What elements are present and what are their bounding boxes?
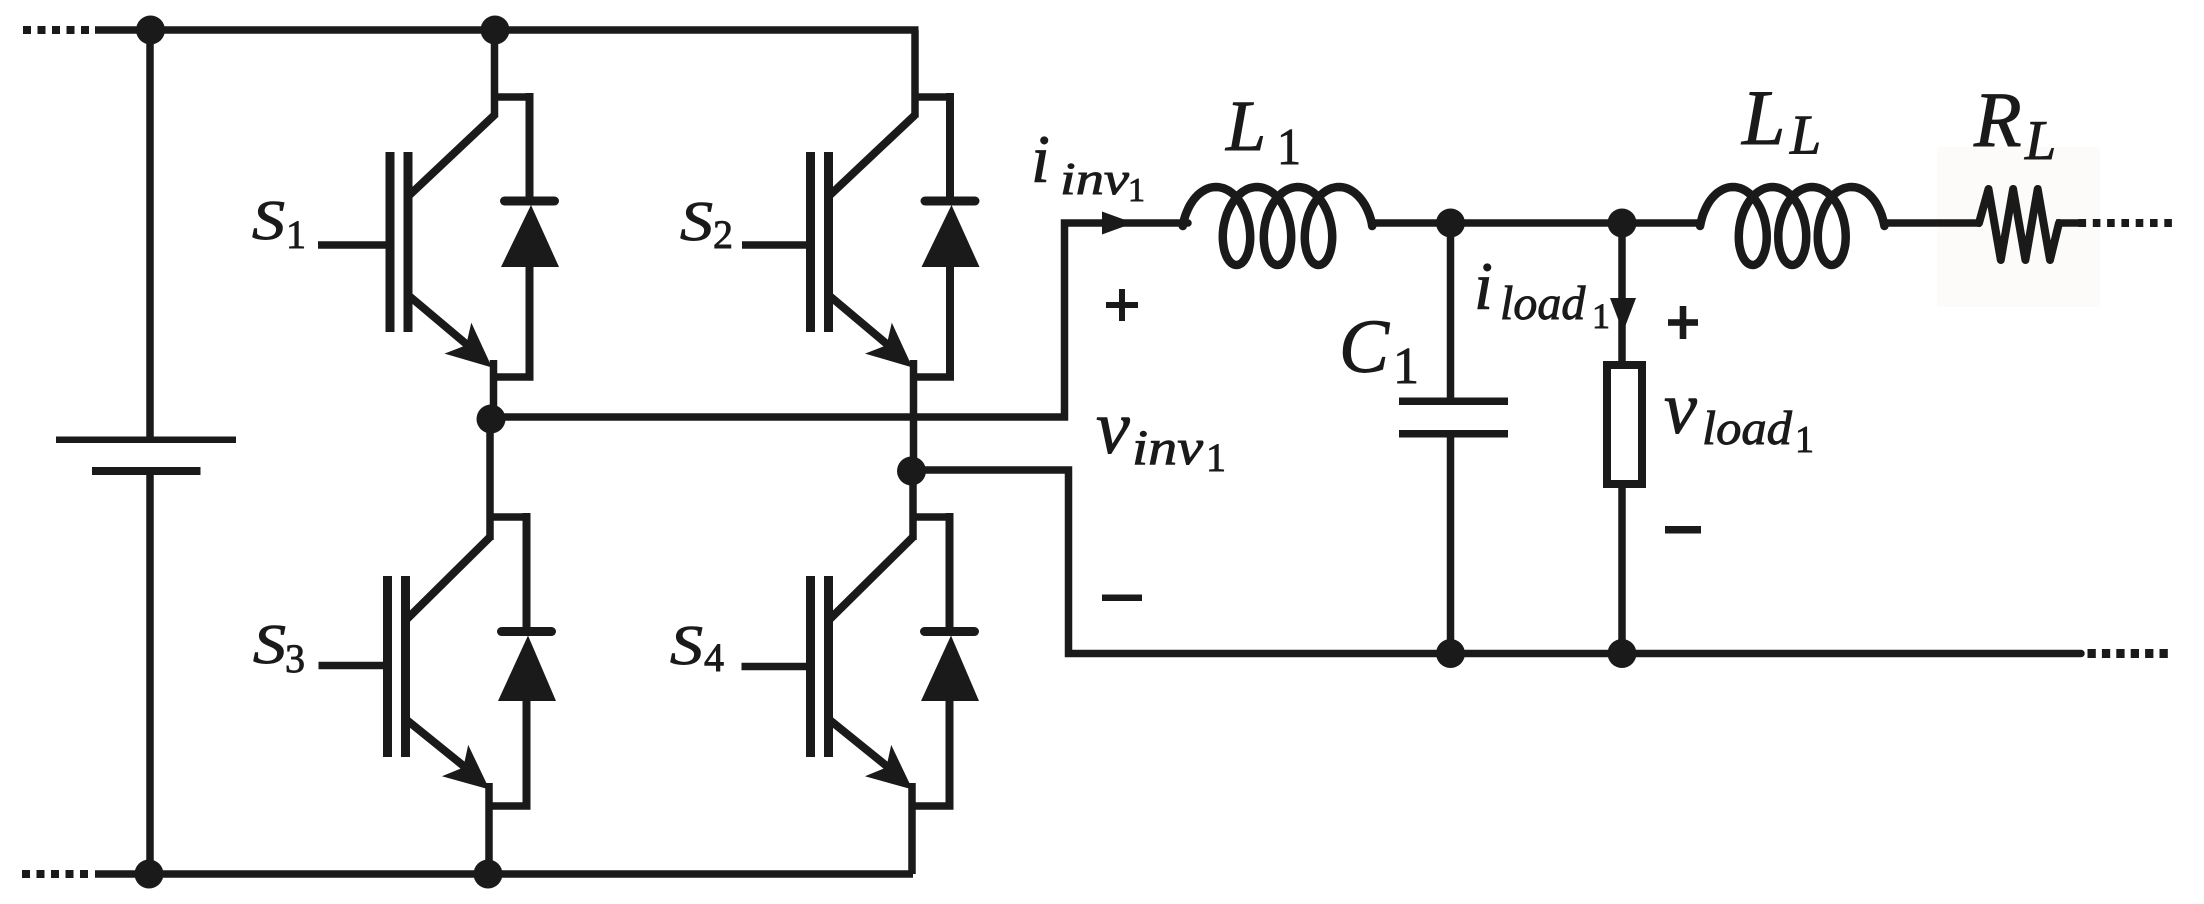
transistor S1 emitter lead [408,295,468,346]
node top-left junction [136,16,165,45]
svg-text:S: S [252,190,285,252]
dotted continuation top-left [23,26,31,34]
wire load bottom lead [1618,488,1626,654]
transistor S4 emitter arrow [865,745,913,790]
wire S1 emitter to midpoint [490,360,498,419]
transistor S1 collector lead [408,115,495,197]
current arrow i_load1 [1610,298,1636,332]
wire S3 emitter to bottom rail [485,783,493,874]
svg-text:L: L [1225,86,1266,166]
transistor S4 collector lead [829,537,914,621]
dotted continuation bottom-right [2088,649,2096,658]
diode D1 triangle [501,205,559,267]
transistor S3 gate bar [383,576,392,757]
svg-text:L: L [1741,74,1785,161]
resistor v_load1 box [1607,365,1642,484]
svg-text:S: S [670,615,703,677]
diode D3 triangle [498,636,556,702]
dotted continuation bottom-left [22,870,30,878]
current arrow i_inv1 [1102,212,1134,235]
battery V_dc negative plate [92,467,201,475]
transistor S4 gate bar [806,576,815,757]
wire battery top lead [146,30,154,438]
svg-text:4: 4 [704,635,724,680]
svg-text:R: R [1973,76,2022,163]
transistor S1 emitter arrow [445,323,493,368]
svg-text:2: 2 [713,212,733,257]
wire RL out [2056,219,2080,227]
svg-text:1: 1 [286,212,306,257]
diode D4 top lead [910,513,950,521]
diode D3 cathode bar [502,627,552,636]
resistor RL zigzag [1979,189,2059,260]
transistor S4 gate lead [742,663,811,671]
transistor S1 body bar [404,152,413,332]
svg-text:1: 1 [1393,338,1419,395]
diode D3 top lead [487,513,527,521]
svg-text:1: 1 [1206,435,1226,480]
svg-text:v: v [1096,386,1130,470]
transistor S3 emitter arrow [442,745,490,790]
plus sign v_load1 [1668,319,1698,326]
diode D2 cathode bar [925,197,975,206]
node bottom S3 junction [474,860,503,889]
node load top [1608,209,1637,238]
diode D4 bottom lead [946,701,954,810]
minus sign v_load1 [1665,526,1701,534]
diode D2 bottom lead [946,267,954,381]
node C1 top [1436,209,1465,238]
diode D1 cathode bar [505,197,555,206]
svg-text:inv: inv [1132,419,1204,475]
dotted continuation top-right [2079,219,2087,227]
wire S3 collector from midpoint [486,419,494,540]
diode D2 triangle [922,205,980,267]
svg-text:1: 1 [1795,419,1814,461]
svg-text:load: load [1702,402,1793,455]
diode D4 cathode bar [925,627,975,636]
wire inverter output upper [491,223,1188,417]
diode D4 triangle [921,636,979,702]
wire S4 emitter to bottom rail [908,783,916,874]
wire load top lead [1618,223,1626,364]
node top S1 junction [481,16,510,45]
transistor S1 gate bar [386,152,395,332]
transistor S3 body bar [401,576,410,757]
wire bottom rail [95,870,913,878]
transistor S3 gate lead [319,662,388,670]
node C1 bottom [1436,639,1465,668]
diode D2 top lead [912,93,951,101]
svg-text:1: 1 [1128,172,1145,209]
minus sign v_inv1 [1102,595,1142,602]
node load bottom [1608,639,1637,668]
transistor S1 gate lead [318,241,390,249]
battery V_dc positive plate [56,437,236,444]
plus sign v_inv1 [1106,302,1138,308]
capacitor C1 top plate [1399,398,1508,406]
svg-text:i: i [1474,248,1493,324]
svg-text:C: C [1339,305,1390,389]
node S1-S3 midpoint [477,405,506,434]
node S2-S4 midpoint [897,457,926,486]
wire S2 emitter to midpoint [910,360,918,471]
svg-text:v: v [1664,368,1697,450]
svg-text:L: L [1789,105,1821,167]
svg-text:L: L [2024,110,2056,172]
transistor S4 emitter lead [829,719,889,768]
transistor S2 gate lead [742,241,811,249]
svg-text:S: S [253,614,286,676]
wire C1 top lead [1447,223,1455,398]
svg-text:3: 3 [285,636,305,681]
wire inverter output lower [912,470,2082,654]
svg-text:load: load [1500,277,1586,330]
transistor S2 body bar [824,152,833,332]
transistor S2 collector lead [829,115,916,197]
transistor S2 gate bar [806,152,815,332]
diode D1 top lead [491,93,530,101]
inductor LL coil [1700,187,1884,265]
wire battery bottom lead [146,475,154,874]
transistor S4 body bar [824,576,833,757]
wire S2 collector from top rail [911,30,919,118]
svg-text:1: 1 [1277,119,1301,176]
transistor S3 emitter lead [406,719,466,768]
transistor S2 emitter arrow [865,323,913,368]
diode D1 bottom lead [526,267,534,381]
svg-text:S: S [680,191,713,253]
wire C1 bottom lead [1447,438,1455,654]
wire LL to RL [1884,219,1981,227]
transistor S2 emitter lead [829,295,889,346]
svg-text:i: i [1031,121,1050,197]
svg-text:1: 1 [1592,296,1610,336]
inductor L1 coil [1183,187,1372,265]
transistor S3 collector lead [406,537,491,621]
wire S4 collector from midpoint [909,471,917,540]
capacitor C1 bottom plate [1399,430,1508,438]
wire top rail [95,26,919,34]
svg-text:inv: inv [1060,153,1130,204]
wire L1 to C1 node [1372,219,1700,227]
diode D3 bottom lead [523,701,531,810]
node bottom-left junction [135,860,164,889]
wire S1 collector from top rail [491,30,499,118]
faint scan tint behind RL [1937,147,2100,307]
